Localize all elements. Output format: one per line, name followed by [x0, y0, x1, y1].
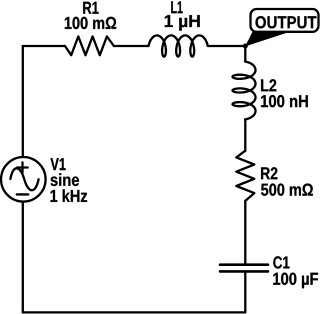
- capacitor C1 top plate: [220, 263, 268, 266]
- label V1: [51, 158, 66, 170]
- wire left vertical upper: [22, 46, 24, 157]
- label OUTPUT: [256, 16, 317, 28]
- OUTPUT flag pointer: [245, 32, 290, 47]
- label V1 type: [51, 173, 80, 186]
- V1 minus sign: [17, 193, 28, 195]
- wire C1 to bottom: [244, 273, 246, 313]
- wire L1 to node: [208, 45, 246, 47]
- wire node to L2: [244, 46, 246, 62]
- label C1: [273, 256, 289, 268]
- wire bottom: [23, 311, 246, 313]
- wire R1 to L1: [114, 45, 149, 47]
- OUTPUT flag box: [251, 9, 319, 32]
- label L1 value: [165, 15, 200, 31]
- node junction dot: [243, 44, 248, 49]
- wire top-left horizontal: [23, 45, 65, 47]
- inductor L2: [233, 62, 256, 120]
- wire R2 to C1: [244, 201, 246, 263]
- V1 plus sign: [17, 162, 28, 172]
- capacitor C1 bottom plate: [220, 270, 268, 273]
- wire left vertical lower: [22, 202, 24, 313]
- label L2 value: [261, 95, 308, 107]
- inductor L1: [149, 35, 208, 56]
- resistor R1: [65, 36, 114, 55]
- voltage source V1 circle: [1, 157, 46, 202]
- wire L2 to R2: [244, 120, 246, 151]
- label R2 value: [261, 184, 313, 196]
- label V1 freq: [51, 189, 88, 202]
- label R2: [261, 167, 277, 179]
- label R1 value: [65, 17, 116, 29]
- resistor R2: [236, 151, 254, 201]
- label C1 value: [273, 273, 318, 289]
- V1 sine wave: [10, 168, 38, 190]
- label L1: [171, 1, 182, 13]
- label L2: [261, 79, 276, 91]
- label R1: [83, 2, 98, 14]
